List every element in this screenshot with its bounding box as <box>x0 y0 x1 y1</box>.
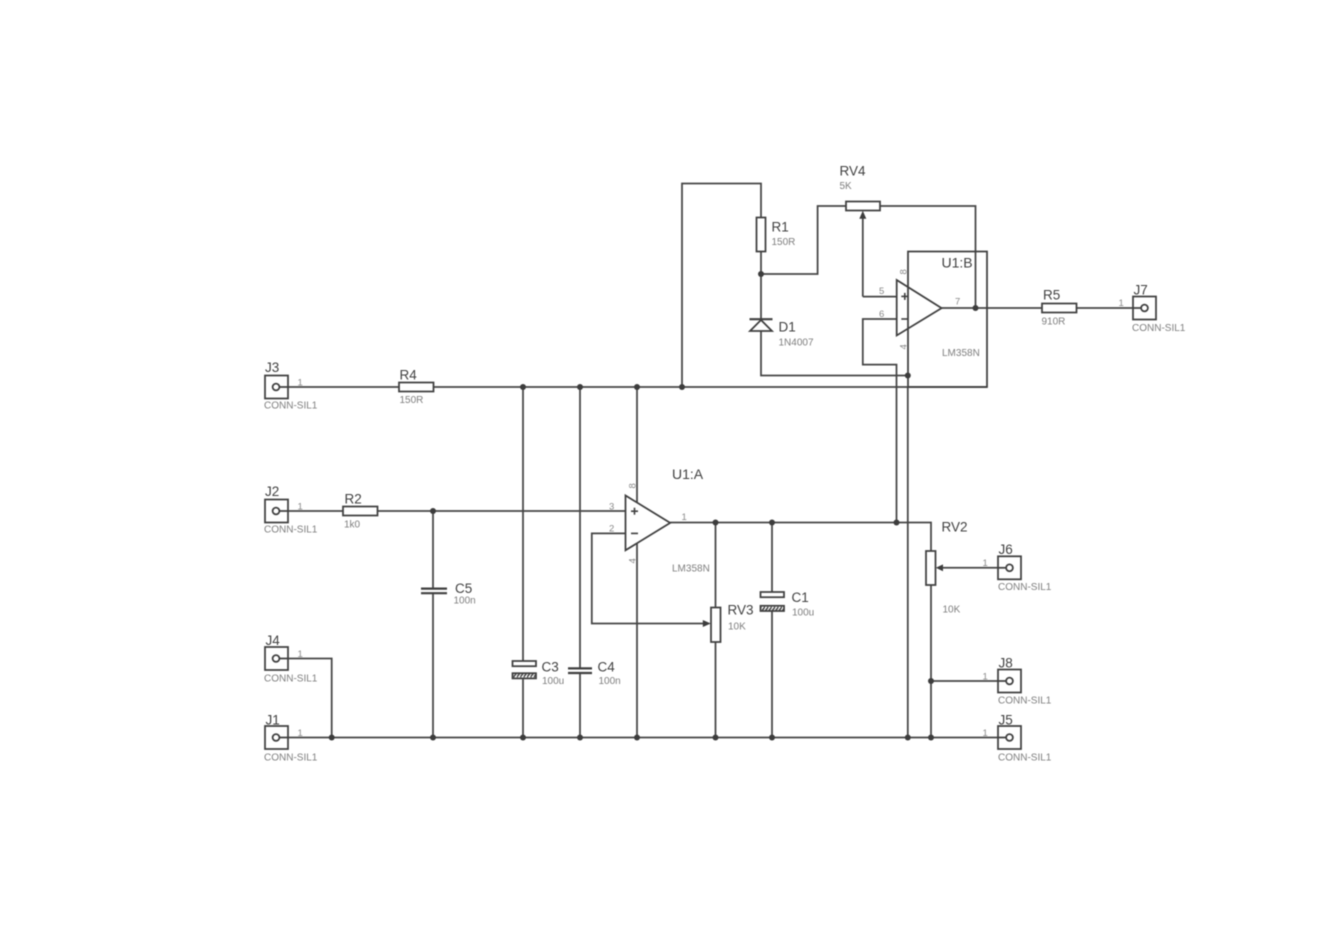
svg-text:D1: D1 <box>779 320 796 335</box>
junction RV3 at bottom bus <box>713 735 719 741</box>
junction C3 top bus <box>520 384 526 390</box>
connector J5 pin circle <box>1006 734 1013 741</box>
op-amp U1:B minus symbol <box>901 318 908 320</box>
svg-text:100n: 100n <box>454 596 476 607</box>
svg-text:C1: C1 <box>792 590 809 605</box>
svg-text:150R: 150R <box>400 395 424 406</box>
wire U1:B pin6 feedback loop <box>863 319 897 523</box>
wire RV4 right to U1:B output junction <box>879 206 976 308</box>
svg-text:1: 1 <box>983 672 988 683</box>
connector J8 pin circle <box>1006 678 1013 685</box>
potentiometer RV4 body <box>846 202 880 211</box>
svg-text:100u: 100u <box>792 608 814 619</box>
svg-text:100u: 100u <box>542 676 564 687</box>
svg-text:6: 6 <box>879 309 884 320</box>
wire U1:A pin2 feedback to RV3 wiper <box>592 533 705 623</box>
svg-text:8: 8 <box>899 269 910 274</box>
connector J7 pin circle <box>1141 305 1148 312</box>
svg-text:C3: C3 <box>542 660 559 675</box>
op-amp U1:A triangle <box>626 496 671 551</box>
junction C3 at bottom bus <box>520 735 526 741</box>
connector J4 box <box>265 647 288 670</box>
wire R1/D1 junction to RV4 left <box>761 206 847 274</box>
junction C4 top bus <box>577 384 583 390</box>
connector J3 box <box>265 376 288 399</box>
junction J4 at bottom bus <box>329 735 335 741</box>
capacitor C1 bottom hatched plate <box>761 606 785 611</box>
junction RV3 at U1:A output net <box>713 520 719 526</box>
junction RV4 right at U1:B output <box>973 305 979 311</box>
wire RV2 wiper to J6 pin1 <box>941 567 998 569</box>
svg-text:8: 8 <box>628 483 639 488</box>
svg-text:4: 4 <box>899 344 910 349</box>
connector J7 box <box>1133 297 1156 320</box>
resistor R5 body <box>1042 304 1077 313</box>
junction U1:B pin4 at bottom bus <box>905 735 911 741</box>
svg-text:U1:B: U1:B <box>942 255 973 271</box>
svg-text:J8: J8 <box>999 656 1013 671</box>
connector J6 box <box>998 556 1021 579</box>
junction U1:A pin8 top bus <box>634 384 640 390</box>
svg-text:C4: C4 <box>598 660 616 675</box>
potentiometer RV3 wiper arrowhead <box>703 620 711 627</box>
wire top bus R4 to U1:B box (net after R4) <box>431 386 987 388</box>
junction C1 at bottom bus <box>769 735 775 741</box>
junction D1 wire at U1:B pin4 <box>905 373 911 379</box>
svg-text:LM358N: LM358N <box>672 564 710 575</box>
wire U1:A output pin1 to RV2 top <box>670 523 931 553</box>
wire RV4 wiper to U1:B pin5 <box>862 217 864 297</box>
wire C5 branch <box>432 511 434 589</box>
junction U1:B feedback at U1:A output net <box>894 520 900 526</box>
svg-text:3: 3 <box>609 502 614 513</box>
resistor R2 body <box>343 507 378 516</box>
wire C3 to bottom bus <box>522 678 524 738</box>
junction R1 bottom / D1 / RV4 <box>758 271 764 277</box>
svg-text:J7: J7 <box>1134 283 1148 298</box>
capacitor C1 top plate <box>761 592 785 597</box>
svg-text:J2: J2 <box>265 484 279 499</box>
wire C1 branch from output net <box>771 523 773 594</box>
wire R2 to U1:A pin3 <box>375 510 626 512</box>
junction left riser top bus <box>679 384 685 390</box>
svg-text:R4: R4 <box>400 368 418 383</box>
wire J3 pin1 to R4 <box>288 386 402 388</box>
junction C1 at U1:A output net <box>769 520 775 526</box>
svg-text:1k0: 1k0 <box>344 520 361 531</box>
svg-text:CONN-SIL1: CONN-SIL1 <box>1132 323 1186 334</box>
svg-text:CONN-SIL1: CONN-SIL1 <box>998 753 1052 764</box>
svg-text:LM358N: LM358N <box>942 348 980 359</box>
junction J8 tap on RV2 lead <box>928 678 934 684</box>
wire U1:A pin8/pin4 vertical (top bus to bottom bus) <box>636 387 638 738</box>
wire U1:B pin5 <box>863 296 897 298</box>
connector J2 pin circle <box>273 508 280 515</box>
svg-text:J6: J6 <box>999 542 1013 557</box>
op-amp U1:B triangle <box>897 280 942 336</box>
svg-text:R2: R2 <box>345 492 362 507</box>
wire left riser top bus to R1 <box>682 184 761 388</box>
svg-text:1: 1 <box>682 512 687 523</box>
op-amp U1:B plus symbol <box>901 293 908 300</box>
wire C1 to bottom bus <box>771 611 773 738</box>
wire RV3 to bottom bus <box>715 641 717 738</box>
svg-text:CONN-SIL1: CONN-SIL1 <box>998 582 1052 593</box>
capacitor C3 bottom hatched plate <box>513 673 537 678</box>
wire bottom ground bus J1 to J5 <box>288 737 998 739</box>
junction U1:A pin4 at bottom bus <box>634 735 640 741</box>
svg-text:10K: 10K <box>943 605 961 616</box>
potentiometer RV2 wiper arrowhead <box>936 564 943 571</box>
svg-text:CONN-SIL1: CONN-SIL1 <box>264 674 318 685</box>
connector J4 pin circle <box>273 655 280 662</box>
svg-text:1: 1 <box>983 558 988 569</box>
connector J2 box <box>265 500 288 523</box>
wire U1:B output pin7 to J7 <box>942 307 1133 309</box>
svg-text:R5: R5 <box>1043 288 1060 303</box>
wire C4 branch from top bus <box>579 387 581 668</box>
svg-text:2: 2 <box>609 524 614 535</box>
op-amp U1:B package box <box>908 252 987 388</box>
wire U1:B pin4 down to bottom bus <box>907 387 909 738</box>
svg-text:CONN-SIL1: CONN-SIL1 <box>998 696 1052 707</box>
svg-text:J1: J1 <box>266 713 280 728</box>
connector J3 pin circle <box>273 384 280 391</box>
wire C5 to bottom bus <box>432 593 434 738</box>
op-amp U1:A minus symbol <box>631 532 638 534</box>
svg-text:J5: J5 <box>999 713 1013 728</box>
junction C5 at R2 net <box>430 508 436 514</box>
svg-text:1: 1 <box>1119 298 1124 309</box>
svg-text:U1:A: U1:A <box>672 466 704 482</box>
wire RV2 bottom to bottom bus <box>930 584 932 738</box>
svg-text:150R: 150R <box>772 237 796 248</box>
svg-text:RV3: RV3 <box>728 603 754 618</box>
svg-text:1: 1 <box>298 378 303 389</box>
svg-text:1N4007: 1N4007 <box>779 338 814 349</box>
svg-text:1: 1 <box>298 728 303 739</box>
wire C4 to bottom bus <box>579 673 581 738</box>
svg-text:J3: J3 <box>265 360 279 375</box>
wire D1 cathode to U1:B pin4 line <box>761 331 908 376</box>
junction C4 at bottom bus <box>577 735 583 741</box>
svg-text:5: 5 <box>879 286 884 297</box>
svg-text:J4: J4 <box>266 633 281 648</box>
capacitor C4 plates <box>568 668 592 673</box>
wire C3 branch from top bus <box>522 387 524 662</box>
op-amp U1:A plus symbol <box>631 508 638 515</box>
svg-text:1: 1 <box>298 502 303 513</box>
svg-text:1: 1 <box>298 649 303 660</box>
connector J8 box <box>998 670 1021 693</box>
svg-text:4: 4 <box>628 558 639 563</box>
potentiometer RV4 wiper arrowhead <box>859 211 866 219</box>
svg-text:910R: 910R <box>1042 317 1066 328</box>
svg-text:CONN-SIL1: CONN-SIL1 <box>264 401 318 412</box>
svg-text:RV2: RV2 <box>942 520 968 535</box>
potentiometer RV2 body <box>926 551 936 585</box>
wire D1 anode lead from R1 junction <box>760 274 762 319</box>
capacitor C3 top plate <box>513 661 537 666</box>
wire RV3 branch from output net <box>715 523 717 610</box>
svg-text:R1: R1 <box>772 220 789 235</box>
connector J6 pin circle <box>1006 564 1013 571</box>
svg-text:CONN-SIL1: CONN-SIL1 <box>264 525 318 536</box>
svg-text:7: 7 <box>955 297 960 308</box>
svg-text:C5: C5 <box>455 581 472 596</box>
svg-text:5K: 5K <box>840 181 853 192</box>
svg-text:100n: 100n <box>599 676 621 687</box>
svg-text:RV4: RV4 <box>840 164 867 179</box>
svg-text:CONN-SIL1: CONN-SIL1 <box>264 753 318 764</box>
connector J1 box <box>265 726 288 749</box>
svg-text:1: 1 <box>983 728 988 739</box>
resistor R4 body <box>399 383 434 392</box>
potentiometer RV3 body <box>711 608 721 643</box>
junction RV2 at bottom bus <box>928 735 934 741</box>
wire J2 pin1 to R2 <box>288 510 346 512</box>
diode D1 triangle <box>750 320 772 331</box>
wire RV2 lower lead tap to J8 pin1 <box>931 680 998 682</box>
resistor R1 body <box>757 218 766 252</box>
connector J5 box <box>998 726 1021 749</box>
svg-text:10K: 10K <box>728 622 746 633</box>
connector J1 pin circle <box>273 734 280 741</box>
junction C5 at bottom bus <box>430 735 436 741</box>
wire R1 bottom lead <box>760 250 762 275</box>
capacitor C5 plates <box>421 589 447 594</box>
diode D1 cathode bar <box>750 318 773 320</box>
wire J4 pin1 down to bottom bus <box>288 659 332 738</box>
